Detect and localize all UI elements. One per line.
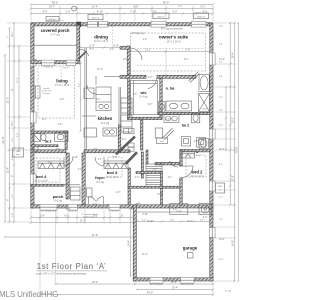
svg-text:9'-4 clg: 9'-4 clg bbox=[96, 181, 104, 184]
svg-text:2'-4": 2'-4" bbox=[42, 119, 47, 121]
svg-text:16'-4": 16'-4" bbox=[231, 52, 235, 59]
svg-text:6'-4": 6'-4" bbox=[17, 133, 19, 138]
svg-text:13'-4": 13'-4" bbox=[92, 280, 99, 284]
svg-text:5'-2": 5'-2" bbox=[201, 6, 206, 9]
svg-text:5'-4": 5'-4" bbox=[200, 219, 205, 221]
svg-text:10' high tray: 10' high tray bbox=[132, 32, 146, 35]
svg-text:9'-2": 9'-2" bbox=[79, 83, 81, 88]
svg-text:2'-8": 2'-8" bbox=[219, 26, 223, 28]
svg-text:2-3050 sh: 2-3050 sh bbox=[43, 67, 53, 69]
svg-text:43'-0": 43'-0" bbox=[147, 291, 154, 295]
svg-text:living: living bbox=[56, 78, 68, 83]
svg-text:9'-8": 9'-8" bbox=[134, 6, 139, 9]
svg-text:scale: 1/4" = 1'-0" all dimen: scale: 1/4" = 1'-0" all dimensions appro… bbox=[36, 272, 87, 275]
svg-text:7'-10": 7'-10" bbox=[130, 11, 136, 14]
svg-text:2'-8": 2'-8" bbox=[194, 141, 199, 143]
svg-text:5'-8": 5'-8" bbox=[66, 11, 71, 14]
svg-text:8'-0 clg: 8'-0 clg bbox=[54, 200, 62, 203]
svg-text:11'-5 x 12'-3: 11'-5 x 12'-3 bbox=[94, 39, 108, 43]
svg-text:3050 sh: 3050 sh bbox=[157, 16, 166, 18]
svg-text:3'-8": 3'-8" bbox=[12, 213, 14, 218]
svg-text:5'-6": 5'-6" bbox=[40, 215, 45, 218]
svg-text:bed 3: bed 3 bbox=[107, 170, 118, 175]
svg-text:3'-8": 3'-8" bbox=[219, 125, 223, 127]
svg-text:8'-0": 8'-0" bbox=[219, 164, 223, 166]
svg-text:5'-6": 5'-6" bbox=[113, 157, 118, 159]
svg-text:MLS UnifiedHHG: MLS UnifiedHHG bbox=[0, 290, 58, 299]
svg-text:17'-2 x 18'-6: 17'-2 x 18'-6 bbox=[55, 83, 70, 87]
svg-text:kitchen: kitchen bbox=[98, 116, 113, 121]
svg-text:owner's suite: owner's suite bbox=[159, 35, 189, 40]
svg-text:9'-6": 9'-6" bbox=[43, 11, 48, 14]
svg-text:6'-2": 6'-2" bbox=[219, 97, 223, 99]
svg-text:ba 3: ba 3 bbox=[45, 139, 52, 143]
svg-text:15'-2": 15'-2" bbox=[232, 117, 235, 123]
svg-text:10'-4": 10'-4" bbox=[218, 259, 224, 261]
svg-text:4'-0": 4'-0" bbox=[116, 192, 121, 194]
svg-text:dining: dining bbox=[94, 34, 108, 39]
svg-text:2'-10": 2'-10" bbox=[72, 157, 78, 159]
svg-text:4'-6": 4'-6" bbox=[219, 76, 223, 78]
svg-text:3'-0": 3'-0" bbox=[203, 109, 208, 111]
svg-text:21'-0": 21'-0" bbox=[147, 221, 153, 223]
svg-text:covered porch: covered porch bbox=[41, 28, 70, 33]
svg-text:6'-0": 6'-0" bbox=[66, 209, 71, 211]
svg-text:8070 ovhd dr: 8070 ovhd dr bbox=[181, 283, 194, 286]
svg-text:3050 sh: 3050 sh bbox=[92, 17, 101, 19]
svg-text:11'-5": 11'-5" bbox=[97, 69, 103, 71]
svg-text:9'-2": 9'-2" bbox=[96, 99, 101, 101]
svg-text:21'-8": 21'-8" bbox=[92, 233, 99, 237]
svg-text:11'-2 x 11'-4: 11'-2 x 11'-4 bbox=[190, 175, 204, 178]
svg-text:4" slab: 4" slab bbox=[225, 291, 232, 293]
svg-text:2'-6": 2'-6" bbox=[166, 119, 171, 121]
svg-text:19'-4": 19'-4" bbox=[172, 287, 178, 290]
svg-text:12'-8": 12'-8" bbox=[157, 194, 163, 196]
svg-text:19'-4": 19'-4" bbox=[187, 221, 193, 223]
svg-text:6'-2": 6'-2" bbox=[173, 11, 178, 14]
svg-text:11'-4": 11'-4" bbox=[7, 167, 10, 173]
svg-text:21'-4": 21'-4" bbox=[92, 6, 98, 9]
svg-text:10' sliding door: 10' sliding door bbox=[41, 209, 57, 212]
svg-text:4'-1": 4'-1" bbox=[168, 177, 173, 179]
svg-text:24'-4": 24'-4" bbox=[129, 240, 131, 246]
svg-text:11'-2 x 11'-0: 11'-2 x 11'-0 bbox=[34, 180, 48, 183]
svg-text:3'-2": 3'-2" bbox=[203, 217, 208, 219]
svg-text:3050 sh: 3050 sh bbox=[197, 16, 206, 18]
svg-text:2' transom above: 2' transom above bbox=[82, 213, 99, 216]
svg-text:garage: garage bbox=[183, 246, 198, 251]
svg-text:9'-10": 9'-10" bbox=[113, 45, 119, 47]
svg-text:4'-2": 4'-2" bbox=[143, 39, 148, 41]
svg-text:2'-10": 2'-10" bbox=[142, 214, 148, 216]
svg-text:5'-0": 5'-0" bbox=[148, 77, 153, 79]
svg-text:3'-2": 3'-2" bbox=[219, 197, 223, 199]
svg-text:9'-4 clg: 9'-4 clg bbox=[140, 96, 148, 99]
svg-text:8'-1": 8'-1" bbox=[11, 120, 14, 125]
svg-text:21'-0": 21'-0" bbox=[80, 219, 87, 223]
svg-text:23'-2": 23'-2" bbox=[219, 239, 225, 241]
svg-text:8'-10": 8'-10" bbox=[97, 11, 103, 14]
svg-text:5'-6": 5'-6" bbox=[219, 219, 223, 221]
svg-text:9'-4 clg: 9'-4 clg bbox=[194, 155, 200, 157]
svg-text:6'-8": 6'-8" bbox=[170, 219, 175, 221]
svg-text:11'-5": 11'-5" bbox=[89, 45, 95, 47]
svg-text:8'-4": 8'-4" bbox=[173, 209, 178, 211]
svg-text:3050: 3050 bbox=[218, 186, 222, 188]
svg-text:5'-4": 5'-4" bbox=[219, 44, 223, 46]
svg-text:13'-2 x 16'-0: 13'-2 x 16'-0 bbox=[166, 39, 181, 43]
svg-text:9'-4" clg: 9'-4" clg bbox=[50, 33, 60, 37]
svg-text:11'-2": 11'-2" bbox=[142, 254, 148, 256]
svg-text:19'-7": 19'-7" bbox=[49, 6, 55, 9]
svg-text:3'-8": 3'-8" bbox=[153, 169, 158, 171]
svg-text:13': 13' bbox=[11, 88, 14, 92]
svg-text:9'-4 clg: 9'-4 clg bbox=[101, 121, 110, 125]
svg-text:13'-0": 13'-0" bbox=[219, 59, 225, 61]
svg-text:13'-8": 13'-8" bbox=[232, 175, 235, 181]
svg-text:o. ba: o. ba bbox=[166, 86, 176, 90]
svg-text:20'-4": 20'-4" bbox=[219, 149, 225, 151]
svg-text:38'-0": 38'-0" bbox=[163, 0, 170, 4]
svg-text:5'-2": 5'-2" bbox=[142, 219, 147, 221]
svg-text:3'-3": 3'-3" bbox=[78, 169, 83, 171]
svg-text:6'-2": 6'-2" bbox=[12, 194, 14, 199]
svg-text:42" dir vent: 42" dir vent bbox=[42, 90, 52, 93]
svg-text:6'-1": 6'-1" bbox=[11, 31, 14, 36]
svg-text:2x6 studs at 16" oc: 2x6 studs at 16" oc bbox=[46, 19, 64, 22]
svg-text:62'-8": 62'-8" bbox=[1, 136, 5, 143]
svg-text:58'-0": 58'-0" bbox=[52, 0, 59, 4]
svg-text:2'-8": 2'-8" bbox=[123, 59, 128, 61]
svg-text:6'-2": 6'-2" bbox=[110, 49, 115, 51]
svg-text:3'-0": 3'-0" bbox=[122, 139, 127, 141]
svg-text:wic: wic bbox=[139, 91, 146, 95]
svg-text:door: door bbox=[16, 154, 20, 156]
svg-text:ba 2: ba 2 bbox=[182, 123, 189, 127]
svg-text:6'-6": 6'-6" bbox=[186, 50, 191, 52]
svg-text:sh: sh bbox=[219, 190, 221, 192]
svg-text:linen: linen bbox=[160, 141, 164, 143]
svg-text:21'-2": 21'-2" bbox=[6, 97, 10, 104]
svg-text:2'-4": 2'-4" bbox=[219, 110, 223, 112]
svg-text:bed 2: bed 2 bbox=[192, 169, 204, 174]
svg-text:5'-4": 5'-4" bbox=[90, 49, 95, 51]
svg-text:3'-0": 3'-0" bbox=[219, 62, 223, 64]
svg-text:3'-0": 3'-0" bbox=[60, 99, 65, 101]
svg-text:4'-6": 4'-6" bbox=[58, 124, 63, 126]
svg-text:24'-8": 24'-8" bbox=[231, 240, 235, 247]
svg-text:tempered glass: tempered glass bbox=[83, 215, 97, 218]
svg-text:11'-2": 11'-2" bbox=[17, 77, 19, 83]
svg-text:bed 4: bed 4 bbox=[36, 174, 47, 179]
svg-text:7'-7": 7'-7" bbox=[178, 6, 183, 9]
svg-text:2'-6": 2'-6" bbox=[135, 177, 140, 179]
svg-text:3'-6": 3'-6" bbox=[12, 138, 14, 143]
svg-text:see spec: see spec bbox=[43, 93, 51, 95]
svg-text:8070 ovhd dr: 8070 ovhd dr bbox=[150, 283, 163, 286]
svg-text:foyer: foyer bbox=[95, 175, 105, 180]
svg-text:5'-8": 5'-8" bbox=[138, 119, 143, 121]
svg-text:2'-8": 2'-8" bbox=[93, 149, 98, 151]
svg-text:6'-2": 6'-2" bbox=[65, 215, 70, 218]
svg-text:8'-0 clg at perimeter: 8'-0 clg at perimeter bbox=[161, 28, 183, 31]
svg-text:1st Floor Plan ‘A’: 1st Floor Plan ‘A’ bbox=[37, 262, 107, 271]
svg-text:3'-0": 3'-0" bbox=[93, 204, 98, 206]
svg-text:13'-2": 13'-2" bbox=[145, 50, 151, 52]
svg-text:5' window: 5' window bbox=[109, 210, 119, 212]
svg-text:porch: porch bbox=[53, 195, 64, 199]
svg-text:3'-1": 3'-1" bbox=[98, 159, 103, 161]
svg-text:6'-8": 6'-8" bbox=[56, 149, 61, 151]
svg-text:6'-4": 6'-4" bbox=[184, 59, 189, 61]
svg-text:3'-6": 3'-6" bbox=[133, 94, 138, 96]
svg-text:16'-0": 16'-0" bbox=[63, 68, 69, 70]
svg-text:5'-2": 5'-2" bbox=[148, 104, 153, 106]
svg-text:5'-0": 5'-0" bbox=[48, 162, 53, 164]
svg-text:11'-0 x 11'-4: 11'-0 x 11'-4 bbox=[106, 176, 119, 179]
